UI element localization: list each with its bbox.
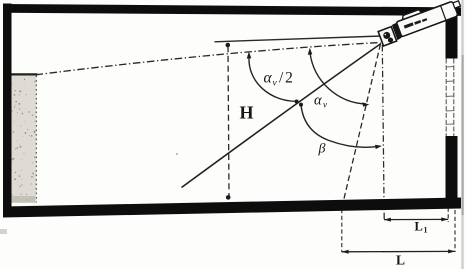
- dimension line L: [342, 250, 455, 252]
- arrow up on dash-dot line (alpha_v/2 arc top): [247, 52, 252, 59]
- arc beta: [301, 105, 379, 148]
- svg-text:/2: /2: [279, 70, 295, 87]
- left wall: [3, 4, 12, 217]
- small lens: [387, 37, 394, 44]
- dashed projection bottom edge (lens to floor wall): [342, 44, 381, 208]
- body seam: [441, 6, 447, 21]
- arc alpha_v: [310, 53, 366, 104]
- dark band between plate and body: [392, 22, 403, 40]
- arrow right (alpha_v arc end at dashed edge): [362, 102, 369, 107]
- svg-text:L: L: [415, 220, 423, 234]
- reference horizontal line at lens height: [215, 36, 382, 42]
- svg-text:β: β: [318, 142, 326, 157]
- svg-text:α: α: [314, 93, 322, 109]
- projection screen (left, stippled): [10, 74, 38, 203]
- top handle bump: [401, 9, 422, 20]
- H bottom dot: [226, 195, 231, 200]
- text smudge on body: [404, 22, 414, 28]
- top wall: [4, 4, 462, 16]
- svg-text:H: H: [240, 103, 254, 123]
- svg-text:α: α: [264, 70, 273, 87]
- extension dashed right for L1: [447, 208, 449, 223]
- screen bottom smudge: [11, 196, 35, 203]
- svg-text:v: v: [323, 100, 327, 110]
- arrow up (alpha_v arc top): [308, 48, 313, 55]
- vertical dash-dot line from lens down: [382, 45, 384, 219]
- right wall upper segment: [446, 7, 458, 59]
- dot at axis end of alpha_v/2 arc: [295, 100, 299, 104]
- projector body: [396, 1, 459, 37]
- svg-text:L: L: [396, 253, 405, 268]
- lens plate: [378, 27, 396, 46]
- screen right dotted edge: [35, 76, 37, 203]
- projector (top right, tilted): [376, 0, 464, 46]
- back nub: [453, 1, 461, 8]
- scan speck: [176, 153, 178, 155]
- bottom wall: [3, 198, 461, 218]
- scan edge streak right: [461, 0, 463, 269]
- arrow right (beta arc end at vertical line): [375, 145, 382, 149]
- dot at beta arc start on axis: [299, 103, 303, 107]
- dimension line L1: [384, 218, 448, 220]
- extension dashed below wall: bottom-edge to L: [341, 209, 343, 252]
- right wall window (open strip): [445, 59, 447, 137]
- H top dot: [226, 43, 231, 48]
- optical axis (solid): [182, 44, 382, 188]
- arc alpha_v/2: [249, 59, 297, 102]
- svg-text:1: 1: [424, 226, 428, 235]
- extension dashed right for L: [454, 210, 456, 252]
- big lens: [382, 31, 391, 40]
- scan mark bottom-left: [0, 229, 7, 234]
- dash-dot projection top edge (lens to screen top): [36, 43, 381, 75]
- right wall lower segment: [446, 136, 458, 203]
- screen top edge: [10, 73, 38, 75]
- H measurement dashed vertical: [228, 46, 229, 197]
